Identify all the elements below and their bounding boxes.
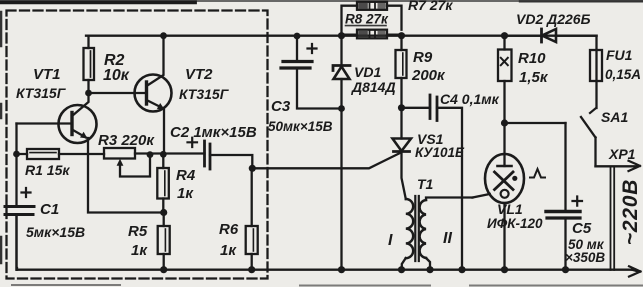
svg-text:R5: R5 xyxy=(128,223,148,240)
svg-text:Д814Д: Д814Д xyxy=(351,79,396,95)
svg-text:FU1: FU1 xyxy=(606,47,633,63)
junction: R4/R5 divider node xyxy=(160,209,167,216)
zener diode VD1 xyxy=(333,36,350,270)
scan artifact: top edge line xyxy=(0,0,643,2)
svg-text:R1 15к: R1 15к xyxy=(25,162,70,178)
junction: R10 / VD2 node on rail xyxy=(501,32,508,39)
mains cord double line xyxy=(611,168,615,271)
junction: base / R1 / C1 node xyxy=(13,151,20,158)
transformer T1 core xyxy=(415,196,419,261)
capacitor C3 xyxy=(281,36,342,109)
wire: left vertical (base node down to C1) xyxy=(15,124,17,207)
svg-text:C4 0,1мк: C4 0,1мк xyxy=(440,91,500,107)
svg-text:1к: 1к xyxy=(131,242,148,259)
svg-text:C2 1мк×15В: C2 1мк×15В xyxy=(170,124,257,141)
diode VD2 xyxy=(505,29,597,42)
svg-text:R9: R9 xyxy=(413,49,433,66)
svg-text:VD2 Д226Б: VD2 Д226Б xyxy=(516,11,591,27)
svg-text:XP1: XP1 xyxy=(608,146,636,162)
svg-text:50мк×15В: 50мк×15В xyxy=(268,119,333,134)
switch SA1 xyxy=(581,108,596,166)
svg-text:КТ315Г: КТ315Г xyxy=(179,86,230,102)
potentiometer R3 xyxy=(104,148,205,177)
capacitor C4 xyxy=(402,95,463,270)
junction: lamp / C5 node xyxy=(501,119,508,126)
svg-text:VT1: VT1 xyxy=(33,66,61,83)
wire: thyristor gate line from C2/R6 node xyxy=(252,153,401,169)
fuse FU1 xyxy=(590,36,602,108)
transistor VT2 xyxy=(135,36,172,112)
svg-text:C3: C3 xyxy=(271,98,291,115)
resistor R1 xyxy=(17,149,105,159)
svg-text:R3 220к: R3 220к xyxy=(98,132,155,149)
junction: VT2 collector on rail xyxy=(160,32,167,39)
resistor R6 xyxy=(246,168,258,269)
junction: VT2 emitter / R4 / C2 node xyxy=(160,151,167,158)
wire: lamp node over to C5 xyxy=(505,122,566,124)
svg-text:1к: 1к xyxy=(177,185,194,202)
svg-text:R7 27к: R7 27к xyxy=(408,0,453,13)
svg-text:VL1: VL1 xyxy=(497,201,523,217)
wire: VT1 base to left vertical xyxy=(17,122,73,124)
resistor R8 (in line with rail) xyxy=(342,26,402,39)
junction: C3 bottom on VD1 line xyxy=(338,105,345,112)
capacitor C5 xyxy=(546,123,582,270)
svg-text:1,5к: 1,5к xyxy=(519,69,549,86)
junction: R9 / C4 / VS1 anode node xyxy=(398,104,405,111)
flash lamp VL1 xyxy=(485,123,524,270)
wire: VT2 emitter down xyxy=(163,109,165,155)
svg-text:T1: T1 xyxy=(417,176,434,192)
resistor R2 xyxy=(84,36,95,93)
junction: R7/R8 right node xyxy=(398,32,405,39)
junction: C2 / R6 / VS1 gate node xyxy=(249,165,256,172)
light flash symbol xyxy=(530,169,545,178)
svg-text:SA1: SA1 xyxy=(601,109,628,125)
svg-text:КТ315Г: КТ315Г xyxy=(16,85,67,101)
transformer T1 winding I xyxy=(402,199,413,270)
svg-text:5мк×15В: 5мк×15В xyxy=(26,224,85,240)
wire: top positive rail xyxy=(86,35,597,37)
transistor VT1 xyxy=(59,93,97,143)
wire: left bottom corner riser xyxy=(15,215,18,270)
svg-text:×350В: ×350В xyxy=(565,250,605,265)
svg-text:II: II xyxy=(443,230,452,247)
scan artifact: bottom edge broken line xyxy=(12,284,643,287)
scan artifact: left edge marks xyxy=(0,12,2,263)
dashed enclosure box xyxy=(7,11,268,279)
plug XP1 upper pin arrow xyxy=(596,161,641,171)
svg-text:R4: R4 xyxy=(176,167,196,184)
svg-text:1к: 1к xyxy=(220,242,237,259)
svg-text:ИФК-120: ИФК-120 xyxy=(487,216,543,231)
svg-text:R8 27к: R8 27к xyxy=(345,12,389,27)
junction: R2 / VT1 collector / VT2 base xyxy=(85,90,92,97)
wire: bottom common rail xyxy=(17,269,632,271)
resistor R4 xyxy=(157,154,169,212)
svg-text:200к: 200к xyxy=(411,67,446,84)
junction dots on bottom rail xyxy=(160,266,167,273)
svg-text:I: I xyxy=(388,232,393,249)
svg-text:0,15А: 0,15А xyxy=(605,67,641,82)
wire: trigger lead into flash lamp xyxy=(473,194,490,198)
junction: VD1 / R7 / R8 left node xyxy=(338,32,345,39)
svg-text:VD1: VD1 xyxy=(354,64,381,80)
capacitor C1 xyxy=(5,188,34,270)
svg-text:C1: C1 xyxy=(40,201,59,218)
thyristor VS1 xyxy=(393,108,412,199)
svg-text:R10: R10 xyxy=(518,50,546,67)
junction: C3 on rail xyxy=(294,33,301,40)
transformer T1 winding II xyxy=(420,198,473,270)
svg-text:КУ101Е: КУ101Е xyxy=(415,145,465,160)
junction: R3 wiper tap xyxy=(147,151,154,158)
svg-text:~220В: ~220В xyxy=(619,179,642,245)
resistor R7 (upper, looped above rail) xyxy=(342,2,402,36)
resistor R10 xyxy=(498,36,512,123)
svg-text:VT2: VT2 xyxy=(185,66,213,83)
wire: R2 bottom to VT2 base xyxy=(89,92,147,94)
resistor R5 xyxy=(158,213,170,270)
wire: VT1 emitter down and over to R4/R5 junction xyxy=(88,138,164,213)
svg-text:10к: 10к xyxy=(103,67,130,84)
svg-text:R6: R6 xyxy=(219,221,239,238)
svg-text:C5: C5 xyxy=(572,220,592,237)
plug XP1 lower pin arrow xyxy=(629,266,641,276)
resistor R9 xyxy=(396,36,407,108)
capacitor C2 xyxy=(188,138,253,169)
